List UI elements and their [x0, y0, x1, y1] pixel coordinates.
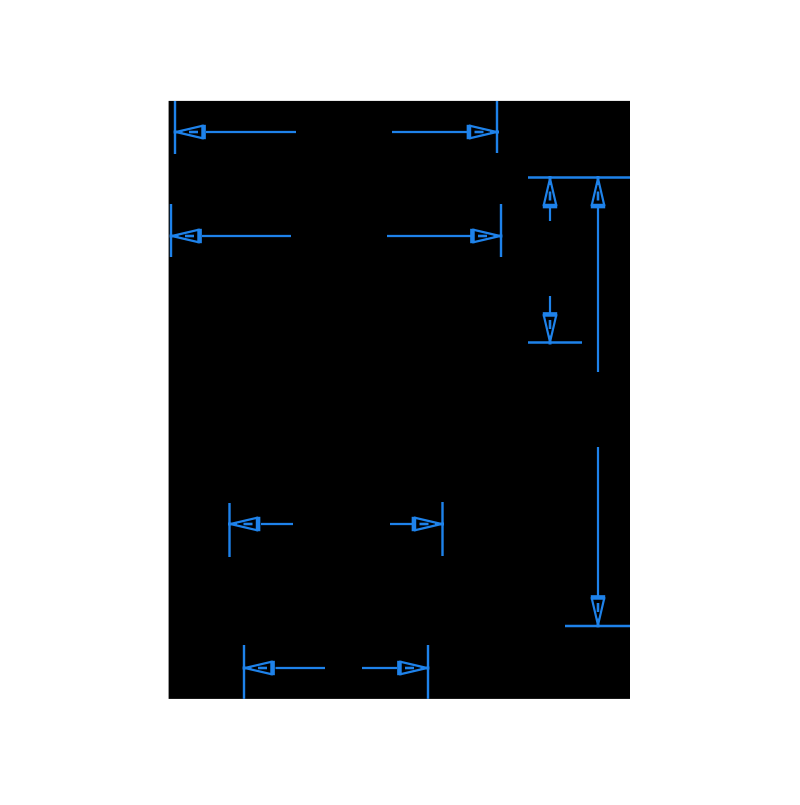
dimension D3 bottom tick line: [528, 341, 582, 344]
dimension D1 arrow left: [174, 125, 204, 139]
dimension D3 line upper stub: [549, 207, 551, 221]
dimension D3 top tick line: [528, 176, 630, 179]
dimension D6 line left segment: [276, 667, 326, 669]
dimension D2 arrow right: [472, 229, 502, 243]
dimension D6 line right segment: [362, 667, 397, 669]
dimension D4 line lower segment: [597, 447, 599, 596]
dimension D1 extension line right: [496, 101, 498, 153]
dimension D5 arrow right: [414, 517, 444, 531]
dimension D2 extension line right: [500, 204, 502, 257]
dimension D2 arrow left: [170, 229, 200, 243]
object outline (filled drawing area): [169, 101, 630, 699]
dimension D4 arrow down: [591, 597, 605, 627]
dimension D2 line left segment: [202, 235, 291, 237]
dimension D6 arrow left: [243, 661, 273, 675]
dimension D4 bottom tick line: [565, 625, 630, 628]
dimension D2 extension line left: [170, 204, 172, 257]
dimension D5 extension line right: [441, 502, 443, 556]
dimension D5 line left segment: [261, 523, 293, 525]
dimension D4 line upper segment: [597, 207, 599, 372]
dimension D3 line lower stub: [549, 296, 551, 313]
dimension D5 arrow left: [228, 517, 258, 531]
dimension D1 line left segment: [206, 131, 296, 133]
dimension D3 arrow up: [543, 176, 557, 206]
dimension D6 extension line right: [427, 645, 429, 699]
dimension D3 arrow down: [543, 314, 557, 344]
dimension D4 arrow up: [591, 176, 605, 206]
dimension D1 arrow right: [469, 125, 499, 139]
dimension D2 line right segment: [387, 235, 471, 237]
dimension D6 arrow right: [399, 661, 429, 675]
dimension D1 line right segment: [392, 131, 467, 133]
dimension D5 extension line left: [228, 503, 230, 557]
dimension D5 line right segment: [390, 523, 412, 525]
dimension D1 extension line left: [174, 101, 176, 154]
dimension D6 extension line left: [243, 645, 245, 699]
